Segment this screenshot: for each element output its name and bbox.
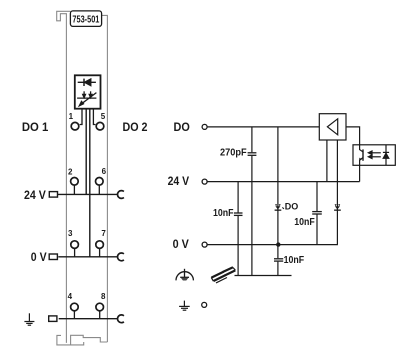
svg-text:2: 2: [68, 168, 73, 177]
pin 5: [96, 122, 104, 130]
label box 753-501: [70, 11, 101, 27]
diode D1 inside LED box: [78, 79, 96, 86]
wire pin8 stem: [99, 311, 101, 319]
optocoupler light arrows: [368, 151, 381, 159]
svg-text:8: 8: [101, 292, 106, 301]
LED indicator box U-LED: [75, 75, 101, 108]
LED symbol inside LED box: [77, 91, 96, 106]
capacitor C3 10nF plates: [274, 259, 283, 261]
pin 3: [71, 241, 79, 249]
pin 8: [96, 303, 104, 311]
wire pin4 stem: [73, 311, 75, 319]
wire LED box to pin 5: [93, 109, 95, 125]
0V row line: [58, 256, 117, 258]
wire pin3 stem: [74, 249, 76, 257]
pin 2: [71, 178, 79, 186]
24V clamp square: [49, 192, 57, 198]
module foot raised middle and right step: [71, 335, 108, 345]
svg-text:270pF: 270pF: [220, 148, 247, 159]
svg-text:0 V: 0 V: [31, 250, 47, 264]
svg-text:DO 2: DO 2: [123, 120, 148, 134]
wire pin2 stem: [73, 186, 75, 195]
wire driver to optocoupler: [346, 127, 360, 145]
module outline right profile: [102, 15, 108, 342]
module outline left profile with top latch: [57, 11, 71, 343]
wire pin6 stem: [98, 186, 100, 195]
svg-text:7: 7: [101, 229, 106, 238]
svg-text:10nF: 10nF: [294, 217, 315, 228]
svg-text:1: 1: [69, 112, 74, 121]
suppressor diode V2 symbol: [334, 204, 341, 211]
earth row line: [59, 318, 118, 320]
24V row line: [58, 193, 118, 195]
power jumper contact knife symbol: [211, 267, 235, 283]
pin 6: [96, 178, 104, 186]
suppressor diode V1 DO branch wire: [277, 127, 279, 245]
wire pin7 stem: [99, 249, 101, 257]
wire optocoupler to 24V rail: [359, 165, 361, 181]
24V rail wire: [207, 181, 359, 183]
internal bus wire to 24V row: [85, 109, 87, 195]
svg-text:10nF: 10nF: [213, 208, 234, 219]
svg-text:DO: DO: [174, 120, 190, 134]
pin 1: [71, 122, 79, 130]
svg-text:5: 5: [101, 112, 106, 121]
svg-text:3: 3: [68, 229, 73, 238]
0V rail wire: [207, 244, 338, 246]
24V terminal circle: [202, 179, 207, 184]
svg-text:4: 4: [68, 292, 73, 301]
capacitor C1 270pF plates: [248, 153, 257, 156]
driver U1 box: [319, 114, 346, 140]
capacitor C2 10nF branch wire: [237, 182, 239, 276]
functional earth symbol bottom: [179, 301, 190, 311]
module foot lip and bottom plate: [57, 335, 84, 345]
label DO at diode: [282, 207, 284, 209]
capacitor C4 10nF branch wire: [316, 182, 318, 245]
bottom earth rail wire: [235, 275, 292, 277]
pin 4: [71, 303, 79, 311]
wire driver output left stub: [326, 140, 328, 182]
earth clamp square: [49, 316, 57, 322]
capacitor C3 10nF branch wire: [277, 245, 279, 276]
svg-text:24 V: 24 V: [24, 188, 46, 202]
junction node 0V: [276, 242, 280, 246]
bottom terminal circle: [202, 302, 207, 307]
0V clamp square: [49, 254, 57, 260]
svg-text:DO 1: DO 1: [22, 120, 49, 134]
wire LED box to pin 1: [80, 109, 82, 125]
svg-text:24 V: 24 V: [168, 174, 190, 188]
optocoupler LED: [383, 145, 389, 166]
capacitor C4 10nF plates: [312, 212, 322, 214]
earth cage clamp hook: [118, 315, 124, 323]
svg-text:DO: DO: [285, 202, 299, 212]
DO terminal circle: [202, 124, 207, 129]
wire driver output right to diode V2: [336, 140, 338, 245]
svg-text:0 V: 0 V: [173, 237, 189, 251]
suppressor diode V1 symbol: [275, 204, 282, 211]
capacitor C2 10nF plates: [234, 213, 243, 215]
24V cage clamp hook: [118, 191, 124, 199]
optocoupler U2 box: [353, 145, 395, 166]
svg-text:753-501: 753-501: [72, 14, 99, 25]
functional earth symbol module: [24, 313, 34, 325]
svg-text:6: 6: [102, 167, 107, 176]
0V cage clamp hook: [118, 253, 124, 261]
optocoupler phototransistor: [359, 145, 363, 166]
capacitor C1 270pF branch wire: [251, 127, 253, 276]
internal bus wire to 0V row: [89, 109, 91, 257]
DO rail wire: [207, 126, 319, 128]
pin 7: [96, 241, 104, 249]
driver U1 triangle: [327, 119, 337, 135]
svg-text:10nF: 10nF: [284, 255, 305, 266]
0V terminal circle: [202, 242, 207, 247]
protective earth symbol with arc: [176, 269, 193, 281]
